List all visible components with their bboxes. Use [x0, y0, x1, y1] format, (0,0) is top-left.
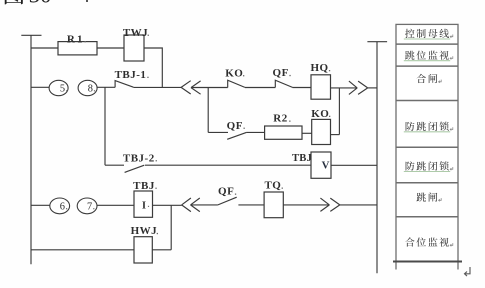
- terminal 5: [49, 80, 68, 95]
- wire R2 to KO coil: [302, 132, 312, 134]
- svg-text:R1: R1: [67, 33, 85, 45]
- anti-pump branch wire: [208, 131, 228, 133]
- table row: 防跳闭锁: [406, 122, 415, 131]
- left bus bar (+) terminal: [21, 34, 41, 36]
- wire connector to KO contact: [191, 87, 228, 89]
- svg-text:V: V: [322, 160, 330, 172]
- svg-text:7: 7: [87, 201, 92, 212]
- function table frame: [396, 24, 458, 261]
- junction down to anti-pump branch: [207, 88, 209, 133]
- closing coil HQ: [311, 75, 331, 99]
- contact KO (NC): [228, 80, 245, 87]
- wire I coil to junction: [153, 204, 182, 206]
- wire HQ to connector, junction to KO coil: [331, 87, 358, 89]
- wire V coil to right bus: [331, 164, 377, 166]
- left bus wire: [30, 35, 32, 264]
- figure caption (cut off at top): 图 50: [5, 0, 24, 4]
- wire connector to right bus: [368, 87, 377, 89]
- svg-text:8: 8: [88, 83, 93, 94]
- contact TBJ-2 (NO): [125, 165, 145, 172]
- table row: 跳位监视: [405, 51, 414, 60]
- TBJ current coil I: [134, 191, 153, 217]
- table row: 合位监视: [405, 237, 414, 246]
- relay coil TWJ: [124, 35, 144, 61]
- wire bus to HWJ: [31, 249, 134, 251]
- svg-text:KO: KO: [311, 108, 329, 120]
- wire bus to terminal 6: [31, 204, 50, 206]
- anti-pump relay coil KO: [312, 119, 331, 144]
- svg-text:I: I: [142, 199, 146, 211]
- wire QF to TQ coil: [238, 204, 264, 206]
- table row: 合闸: [417, 74, 426, 83]
- svg-text:TBJ: TBJ: [292, 153, 312, 164]
- wire QF to HQ coil: [293, 87, 312, 89]
- table bottom border: [393, 261, 462, 263]
- tripping coil TQ: [264, 192, 283, 218]
- relay coil HWJ: [134, 237, 152, 263]
- contact QF aux (NC): [275, 80, 292, 87]
- wire TQ to connector: [283, 204, 329, 206]
- right bus bar (-) terminal: [367, 41, 387, 43]
- svg-text:QF: QF: [218, 186, 234, 198]
- svg-text:KO: KO: [225, 67, 243, 79]
- wire TBJ-1 to connector: [133, 86, 181, 88]
- table edge stubs below: [395, 263, 397, 270]
- wire connector to right bus: [340, 204, 377, 206]
- svg-text:50: 50: [29, 0, 52, 7]
- wire HWJ up to trip row: [152, 249, 171, 251]
- svg-text:TBJ-1: TBJ-1: [115, 69, 147, 81]
- svg-text:TBJ: TBJ: [133, 180, 155, 192]
- wire bus to terminal 5: [31, 86, 49, 88]
- svg-text:HQ: HQ: [310, 62, 328, 74]
- wire to R1: [31, 47, 58, 49]
- table row: 跳闸: [416, 193, 425, 202]
- resistor R2: [265, 126, 302, 139]
- junction down to TBJ-2 row: [104, 87, 106, 165]
- wire from TWJ down to TBJ-1 row: [144, 48, 162, 87]
- contact TBJ-1 (NC): [115, 81, 133, 88]
- contact QF aux 2 (NO): [227, 132, 246, 139]
- svg-text:5: 5: [60, 83, 65, 94]
- contact QF aux 3 (NO): [218, 197, 237, 205]
- svg-text:TBJ-2: TBJ-2: [123, 152, 155, 164]
- svg-text:R2: R2: [273, 113, 287, 125]
- wire KO coil output: [331, 134, 340, 136]
- wire connector to QF contact: [191, 204, 218, 206]
- terminal 7: [77, 198, 97, 214]
- junction wire down to KO coil output: [338, 88, 340, 135]
- table row: 控制母线: [405, 29, 414, 38]
- wire to R2: [246, 131, 264, 133]
- wire TBJ-2 row: [105, 164, 124, 166]
- TBJ voltage coil V: [311, 152, 331, 178]
- terminal 8: [78, 80, 97, 95]
- paragraph return mark bottom right: [465, 267, 471, 276]
- connector arrows (right) row5: [320, 198, 339, 211]
- wire KO-QF: [245, 87, 275, 89]
- connector arrows (left) row2: [181, 81, 201, 94]
- terminal 6: [50, 198, 70, 214]
- wire terminal 7 to TBJ current coil: [97, 204, 134, 206]
- resistor R1: [58, 42, 97, 55]
- connector arrows (right) row2: [349, 81, 368, 94]
- svg-text:6: 6: [60, 201, 65, 212]
- table row: 防跳闭锁: [406, 161, 415, 170]
- svg-text:TWJ: TWJ: [123, 27, 148, 39]
- svg-text:HWJ: HWJ: [131, 225, 158, 237]
- svg-text:TQ: TQ: [264, 180, 281, 192]
- wire terminal 8 to TBJ-1 contact: [97, 86, 115, 88]
- junction down to HWJ row: [170, 205, 172, 250]
- wire TBJ-2 to TBJ voltage coil: [145, 164, 311, 166]
- wire R1-TWJ: [97, 47, 124, 49]
- svg-text:QF: QF: [273, 67, 289, 79]
- connector arrows (left) row5: [182, 198, 200, 212]
- svg-text:QF: QF: [227, 120, 243, 132]
- right bus wire: [376, 42, 378, 274]
